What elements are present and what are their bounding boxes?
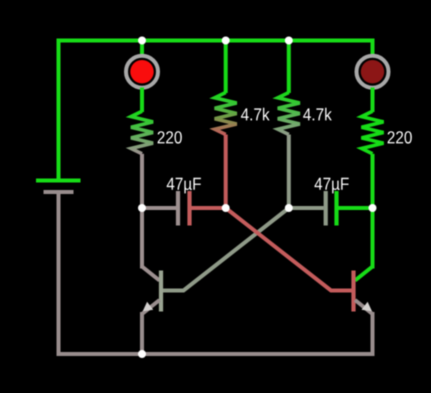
wire: R1 to node A bbox=[140, 154, 144, 208]
node C junction bbox=[285, 204, 293, 212]
resistor R1 220 bbox=[131, 111, 153, 154]
wire: node B to Q2 base (cross wire) bbox=[226, 208, 354, 291]
LED D2 (off) bbox=[357, 56, 389, 88]
label R3 4.7k bbox=[241, 108, 270, 121]
resistor R2 220 bbox=[362, 111, 384, 154]
LED D1 (lit) bbox=[126, 56, 158, 88]
resistor R4 4.7k bbox=[278, 93, 300, 135]
label C2 47uF bbox=[315, 178, 349, 194]
wire: top V+ rail bbox=[59, 41, 373, 179]
wire: battery negative to ground rail bbox=[59, 194, 373, 354]
label C1 47uF bbox=[167, 178, 201, 194]
label R1 220 bbox=[158, 131, 182, 143]
battery V1 bbox=[36, 181, 81, 193]
wire: V+ to R3 bbox=[224, 41, 228, 94]
transistor Q1 bbox=[142, 267, 161, 315]
node D junction bbox=[369, 204, 377, 212]
capacitor C2 47uF bbox=[289, 191, 373, 226]
wire: node C to Q1 base (cross wire) bbox=[161, 208, 289, 291]
wire: R4 to node C bbox=[287, 135, 291, 209]
wire: R3 to node B bbox=[224, 135, 228, 209]
wire: Q2 emitter to ground rail bbox=[371, 312, 375, 354]
node B junction bbox=[222, 204, 230, 212]
node: top rail junction at R4 bbox=[285, 37, 293, 45]
wire: Q1 emitter to ground rail bbox=[140, 312, 144, 354]
node: top rail junction at R3 bbox=[222, 37, 230, 45]
capacitor C1 47uF bbox=[142, 191, 226, 226]
node A junction bbox=[138, 204, 146, 212]
label R4 4.7k bbox=[303, 108, 332, 121]
transistor Q2 bbox=[354, 267, 373, 315]
node: ground rail junction at Q1 emitter bbox=[138, 350, 146, 358]
wire: R2 to node D bbox=[371, 154, 375, 208]
node: top rail junction at LED D1 bbox=[138, 37, 146, 45]
wire: LED D1 to R1 bbox=[140, 88, 144, 113]
wire: node D to Q2 collector bbox=[371, 208, 375, 269]
wire: V+ to R4 bbox=[287, 41, 291, 94]
wire: LED D2 to R2 bbox=[371, 88, 375, 113]
resistor R3 4.7k bbox=[215, 93, 237, 135]
wire: node A to Q1 collector bbox=[140, 208, 144, 269]
label R2 220 bbox=[388, 131, 412, 143]
wire: V+ to LED D1 bbox=[140, 41, 144, 57]
